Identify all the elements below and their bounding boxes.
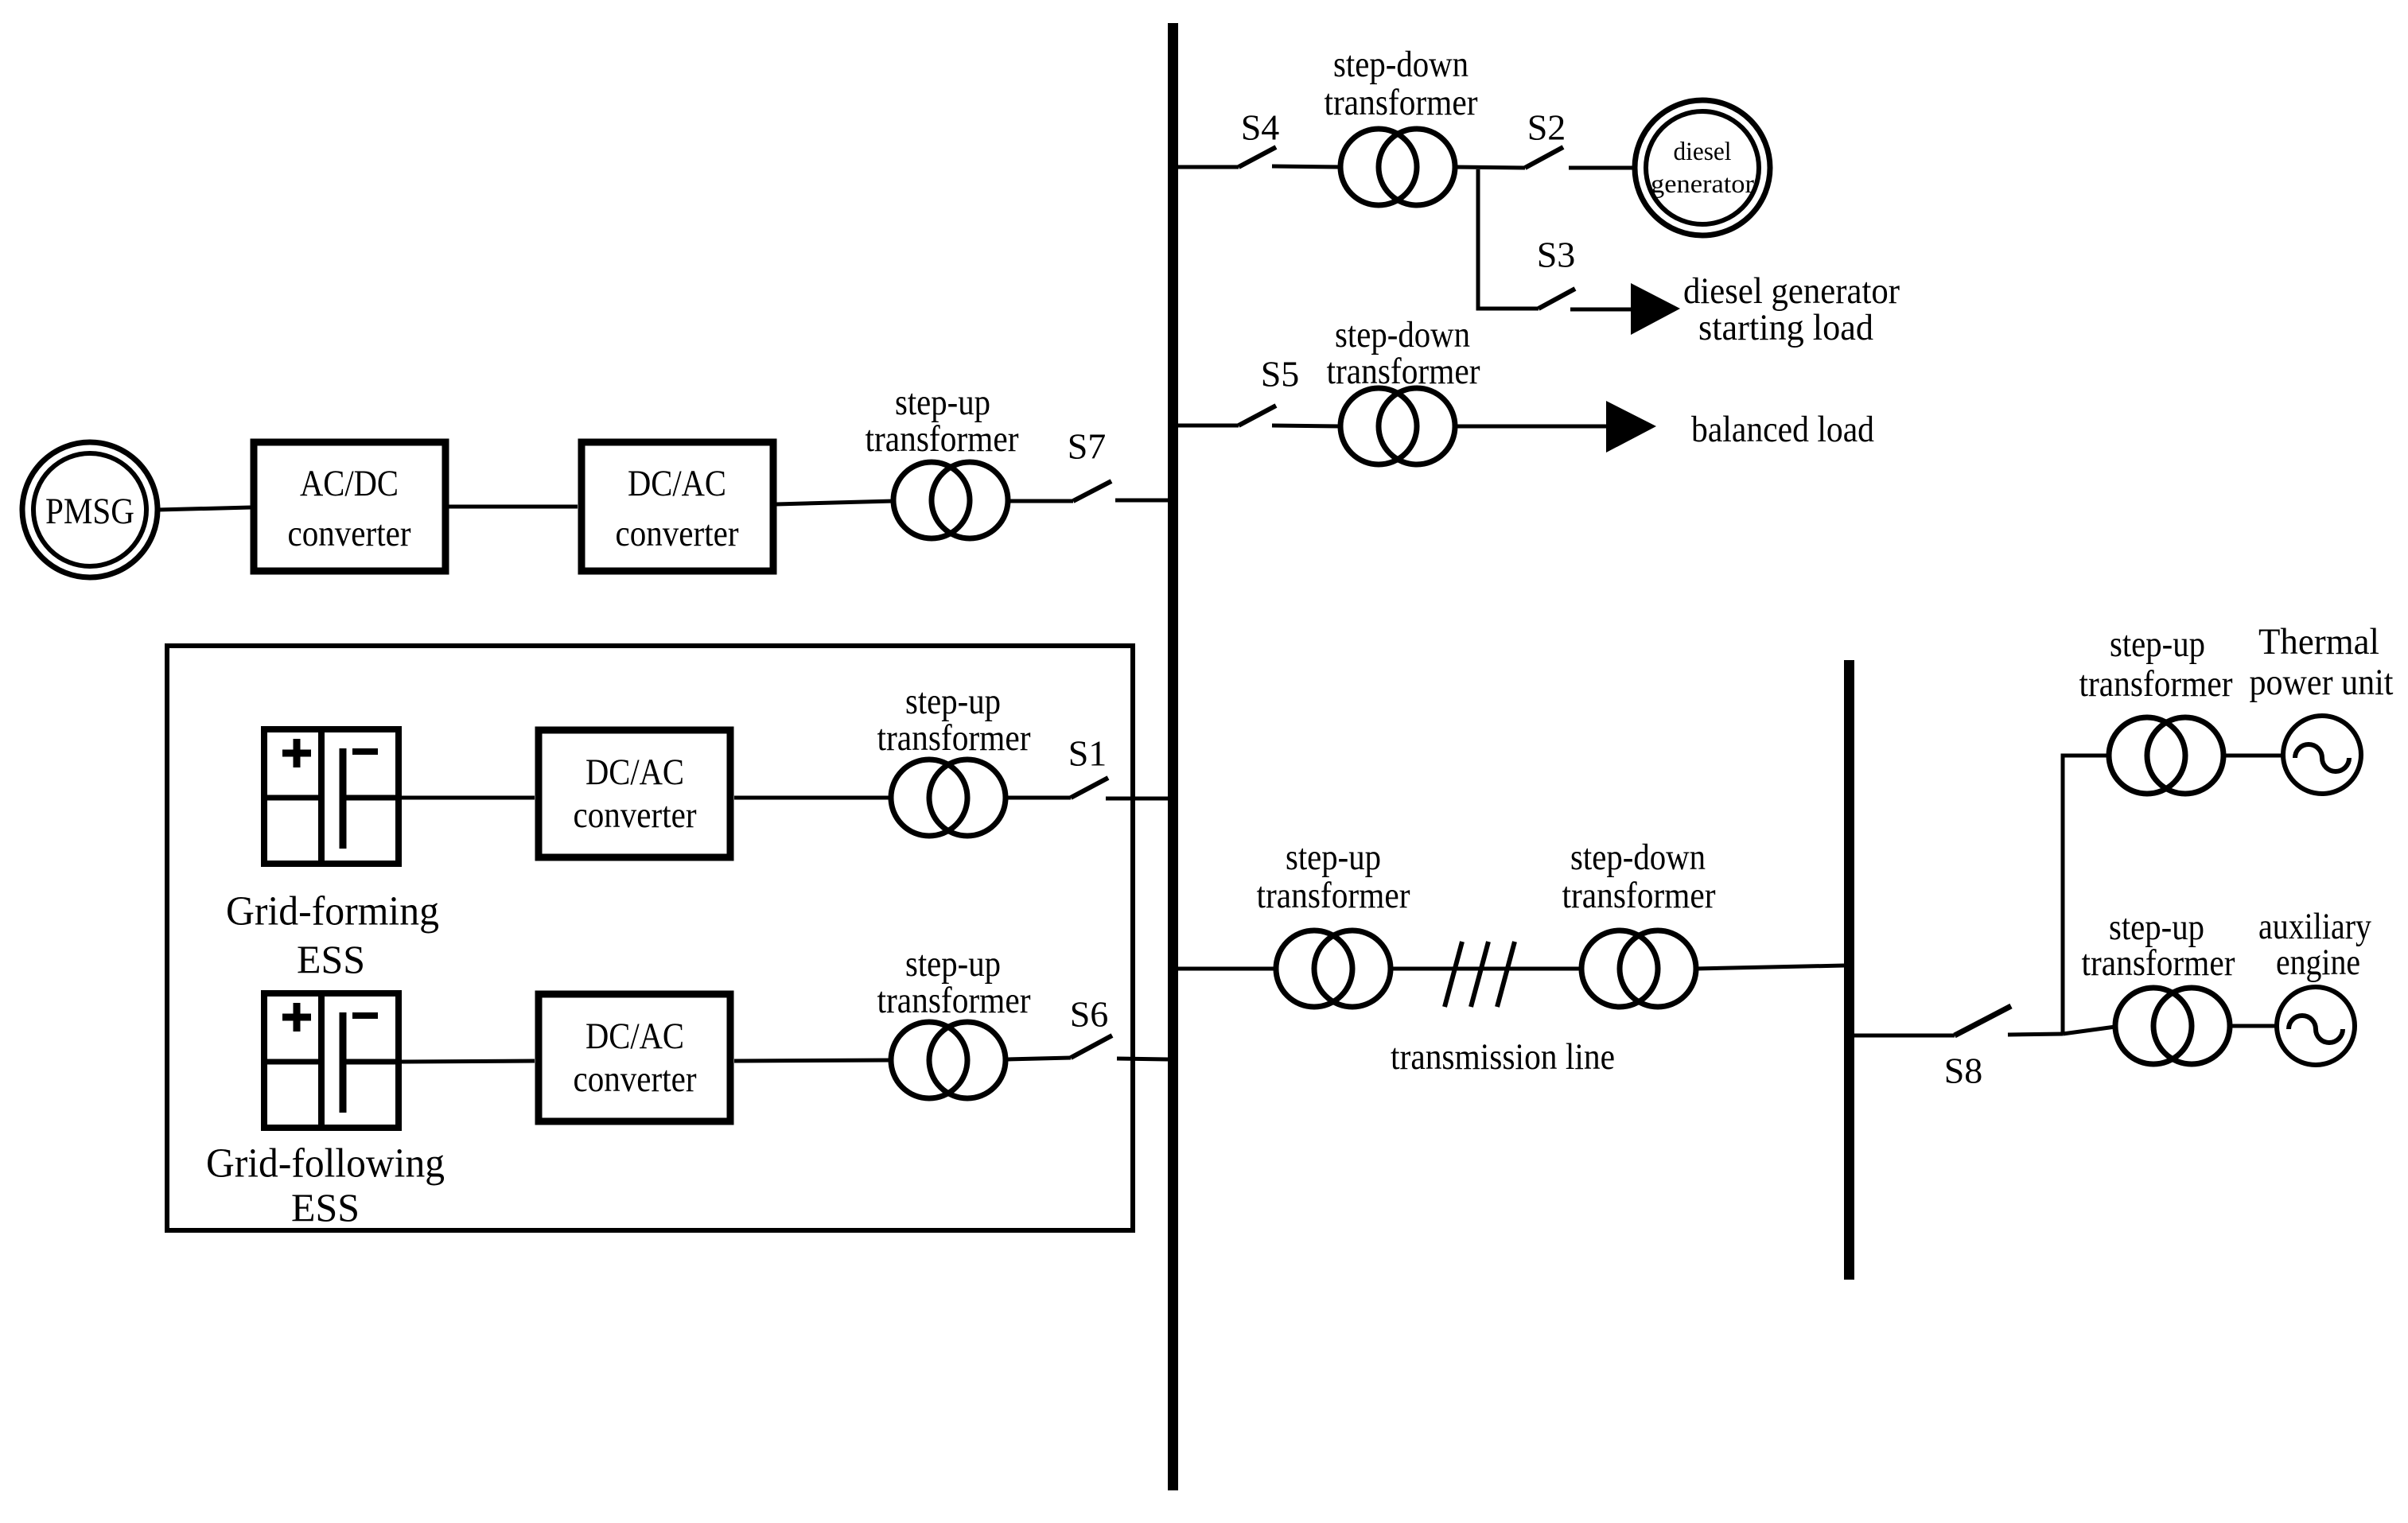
svg-text:Grid-forming: Grid-forming	[226, 889, 439, 934]
svg-text:diesel: diesel	[1674, 138, 1732, 166]
wire bus B1 to switch S4	[1178, 165, 1239, 169]
switch S2	[1525, 107, 1635, 169]
wire U3 to transformer T1	[734, 796, 891, 800]
svg-text:S6: S6	[1070, 994, 1109, 1035]
switch S6	[1008, 994, 1168, 1060]
svg-text:ESS: ESS	[297, 937, 365, 981]
svg-text:Grid-following: Grid-following	[206, 1141, 445, 1187]
svg-text:balanced load: balanced load	[1691, 409, 1874, 450]
transformer T12 step-up auxiliary	[2082, 907, 2235, 1064]
switch S3	[1537, 235, 1632, 310]
svg-text:S8: S8	[1944, 1051, 1983, 1091]
transformer T1 step-up	[877, 681, 1031, 836]
enclosure ESS box	[167, 646, 1133, 1230]
svg-text:transformer: transformer	[866, 418, 1019, 460]
source thermal power unit	[2250, 621, 2394, 794]
svg-text:diesel generator: diesel generator	[1683, 270, 1900, 312]
label Grid-following ESS	[206, 1141, 445, 1230]
svg-text:step-up: step-up	[2110, 624, 2205, 665]
generator diesel	[1635, 100, 1770, 235]
wire PMSG to AC/DC converter	[158, 507, 251, 510]
wire battery ESS2 to DC/AC converter	[402, 1061, 535, 1062]
svg-text:transformer: transformer	[1327, 351, 1480, 392]
wire T4 to node J1 and switch S2	[1455, 167, 1525, 168]
wire bus B1 to switch S5	[1178, 424, 1239, 428]
wire bus B2 to switch S8	[1854, 1034, 1955, 1038]
svg-text:transformer: transformer	[2082, 942, 2235, 984]
switch S1	[1008, 733, 1168, 799]
svg-text:transformer: transformer	[877, 717, 1031, 759]
switch S8	[1944, 1006, 2063, 1091]
svg-text:converter: converter	[288, 513, 411, 554]
wire riser node to thermal branch	[2063, 756, 2109, 1034]
wire T5 to balanced load arrow	[1455, 425, 1606, 429]
battery ESS1 grid-forming	[262, 727, 401, 866]
svg-text:transformer: transformer	[1325, 82, 1478, 123]
svg-text:S5: S5	[1261, 354, 1300, 394]
svg-text:transformer: transformer	[877, 980, 1031, 1021]
svg-text:converter: converter	[616, 513, 739, 554]
wire battery ESS1 to DC/AC converter	[402, 796, 535, 800]
transformer T5 step-down	[1327, 314, 1480, 464]
svg-text:power unit: power unit	[2250, 662, 2394, 703]
svg-text:DC/AC: DC/AC	[585, 1016, 684, 1057]
svg-text:S4: S4	[1241, 107, 1280, 148]
svg-text:S2: S2	[1527, 107, 1566, 148]
svg-text:S7: S7	[1068, 426, 1107, 467]
svg-text:starting load: starting load	[1698, 307, 1873, 348]
transformer T11 step-up thermal	[2079, 624, 2233, 794]
svg-text:DC/AC: DC/AC	[585, 752, 684, 793]
transmission line slash marks	[1445, 942, 1515, 1007]
wire bus B1 to transformer T9	[1178, 967, 1276, 971]
transformer T9 transmission step-up	[1257, 837, 1410, 1007]
switch S5	[1239, 354, 1340, 427]
transformer T10 transmission step-down	[1562, 837, 1716, 1007]
converter U1 AC/DC	[254, 442, 445, 571]
switch S7	[1010, 426, 1168, 502]
svg-text:step-down: step-down	[1570, 837, 1706, 878]
battery ESS2 grid-following	[262, 991, 401, 1130]
svg-text:converter: converter	[574, 795, 697, 836]
svg-text:generator: generator	[1651, 170, 1754, 199]
svg-text:step-up: step-up	[905, 681, 1001, 722]
svg-text:Thermal: Thermal	[2258, 621, 2379, 662]
svg-text:transformer: transformer	[2079, 663, 2233, 705]
arrow to diesel generator starting load	[1631, 283, 1680, 335]
svg-text:transformer: transformer	[1257, 875, 1410, 916]
svg-text:step-up: step-up	[895, 382, 990, 423]
svg-text:S1: S1	[1068, 733, 1107, 774]
wire DC/AC to transformer T7	[776, 501, 893, 504]
label diesel generator starting load	[1683, 270, 1900, 348]
converter U3 DC/AC (ESS1)	[539, 730, 730, 857]
arrow to balanced load	[1606, 401, 1656, 453]
svg-text:S3: S3	[1537, 235, 1576, 275]
svg-text:step-down: step-down	[1333, 44, 1469, 85]
transformer T4 step-down	[1325, 44, 1478, 205]
wire AC/DC to DC/AC	[449, 505, 578, 509]
wire U4 to transformer T6	[734, 1060, 891, 1061]
converter U4 DC/AC (ESS2)	[539, 994, 730, 1121]
svg-text:AC/DC: AC/DC	[300, 463, 399, 504]
transformer T6 step-up	[877, 943, 1031, 1098]
svg-text:converter: converter	[574, 1059, 697, 1100]
wire T12 to auxiliary engine	[2230, 1024, 2277, 1028]
svg-text:step-down: step-down	[1335, 314, 1470, 355]
wire T10 to bus B2	[1696, 965, 1844, 969]
generator PMSG	[22, 442, 158, 577]
svg-text:ESS: ESS	[291, 1185, 360, 1230]
source auxiliary engine	[2258, 906, 2371, 1065]
svg-text:engine: engine	[2276, 942, 2360, 983]
svg-text:transmission line: transmission line	[1391, 1036, 1615, 1078]
svg-text:DC/AC: DC/AC	[628, 463, 726, 504]
bus B2 (main grid bus)	[1844, 660, 1854, 1280]
converter U2 DC/AC	[582, 442, 773, 571]
wire transmission line	[1391, 967, 1581, 971]
svg-text:step-up: step-up	[1286, 837, 1381, 878]
label Grid-forming ESS	[226, 889, 439, 982]
svg-text:step-up: step-up	[905, 943, 1001, 985]
svg-text:transformer: transformer	[1562, 875, 1716, 916]
svg-text:PMSG: PMSG	[45, 491, 134, 532]
wire riser to auxiliary transformer	[2063, 1027, 2115, 1034]
switch S4	[1239, 107, 1340, 168]
bus B1 (microgrid AC bus)	[1168, 23, 1178, 1490]
wire node J1 down to S3 branch	[1478, 169, 1539, 309]
transformer T7 step-up	[866, 382, 1019, 538]
wire T11 to thermal power unit	[2223, 754, 2283, 758]
